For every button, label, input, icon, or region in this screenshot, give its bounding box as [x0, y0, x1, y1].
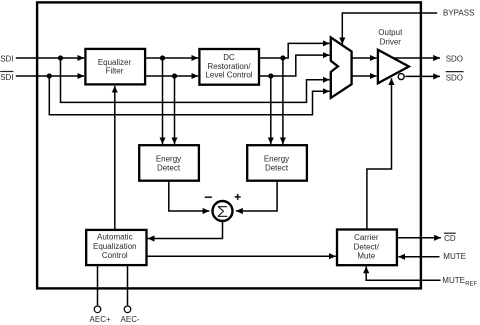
svg-text:Σ: Σ — [217, 204, 228, 221]
svg-text:AEC+: AEC+ — [90, 315, 111, 324]
svg-text:Equalization: Equalization — [93, 242, 137, 251]
svg-text:Control: Control — [102, 251, 128, 260]
svg-text:Equalizer: Equalizer — [98, 58, 132, 67]
svg-text:Detect/: Detect/ — [354, 242, 380, 251]
svg-text:MUTE: MUTE — [443, 252, 466, 261]
svg-text:Driver: Driver — [380, 37, 402, 46]
svg-text:AEC-: AEC- — [121, 315, 140, 324]
svg-text:MUTE: MUTE — [442, 276, 465, 285]
svg-text:Carrier: Carrier — [354, 233, 379, 242]
svg-text:Detect: Detect — [157, 163, 181, 172]
svg-text:Filter: Filter — [106, 67, 124, 76]
svg-text:BYPASS: BYPASS — [443, 9, 474, 18]
svg-text:Energy: Energy — [156, 154, 181, 163]
svg-text:SDI: SDI — [0, 54, 13, 63]
svg-text:Output: Output — [378, 28, 403, 37]
svg-text:Energy: Energy — [264, 154, 289, 163]
svg-text:CD: CD — [444, 234, 456, 243]
svg-text:SDI: SDI — [0, 73, 13, 82]
svg-text:Mute: Mute — [357, 251, 375, 260]
svg-text:Level Control: Level Control — [205, 71, 252, 80]
svg-text:DC: DC — [223, 53, 235, 62]
svg-text:Automatic: Automatic — [97, 233, 133, 242]
svg-text:SDO: SDO — [446, 54, 463, 63]
svg-text:Detect: Detect — [265, 163, 289, 172]
svg-text:Restoration/: Restoration/ — [207, 62, 251, 71]
svg-text:REF: REF — [465, 281, 477, 287]
svg-text:SDO: SDO — [446, 74, 463, 83]
